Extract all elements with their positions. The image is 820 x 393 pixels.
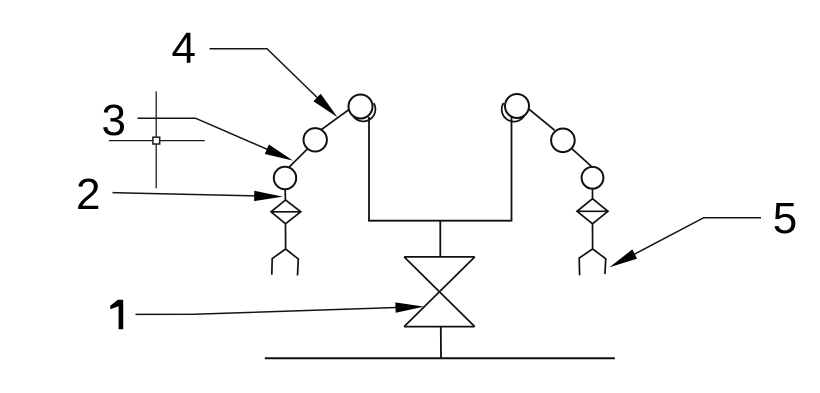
joint circle (right middle) — [551, 129, 575, 153]
swivel joint circle (right top) — [505, 94, 529, 118]
joint circle (left lower) — [274, 167, 296, 189]
arrowhead 2 — [254, 191, 283, 201]
wire: manifold header — [368, 220, 512, 222]
pickbox — [153, 137, 160, 144]
wire: link upper (left arm) — [322, 109, 350, 129]
arrowhead 4 — [313, 94, 337, 118]
leader line 3 — [138, 118, 288, 158]
leader line 2 — [113, 193, 259, 196]
wire: diamond to hose (left) — [285, 224, 287, 249]
wire: left riser pipe — [368, 117, 370, 221]
wire: link upper (right arm) — [529, 109, 555, 130]
arrowhead 5 — [610, 249, 638, 267]
leader line 5 — [633, 218, 761, 255]
svg-text:4: 4 — [172, 24, 196, 73]
arrowhead 3 — [265, 145, 293, 161]
wire: valve stem upper — [439, 221, 441, 257]
svg-text:5: 5 — [773, 194, 797, 243]
wire: link lower (right arm) — [572, 149, 592, 167]
coupler diamond (left) — [271, 200, 301, 224]
wire: circle to diamond (left) — [284, 189, 286, 200]
hose connector legs (left) — [272, 249, 299, 276]
svg-text:2: 2 — [76, 170, 100, 219]
baseline (deck line) — [265, 357, 615, 359]
coupler diamond (right) — [577, 199, 608, 224]
arrowhead 1 — [395, 302, 424, 312]
label 1 — [110, 300, 123, 330]
swivel arc (right top joint) — [502, 103, 525, 122]
leader line 1 — [136, 307, 401, 314]
crosshair cursor horizontal — [109, 140, 205, 142]
svg-text:3: 3 — [102, 96, 126, 145]
crosshair cursor vertical — [155, 91, 157, 188]
joint circle (right lower) — [582, 167, 604, 189]
wire: circle to diamond (right) — [592, 189, 594, 199]
hose connector legs (right) — [579, 249, 606, 275]
swivel joint circle (left top) — [349, 95, 373, 119]
wire: diamond to hose (right) — [592, 224, 594, 249]
swivel arc (left top joint) — [353, 103, 376, 121]
wire: link lower (left arm) — [288, 149, 308, 168]
joint circle (left middle) — [304, 128, 327, 151]
wire: right riser pipe — [511, 117, 513, 221]
valve (gate valve bowtie) — [404, 257, 475, 327]
wire: valve stem lower — [440, 327, 442, 359]
leader line 4 — [210, 49, 331, 110]
